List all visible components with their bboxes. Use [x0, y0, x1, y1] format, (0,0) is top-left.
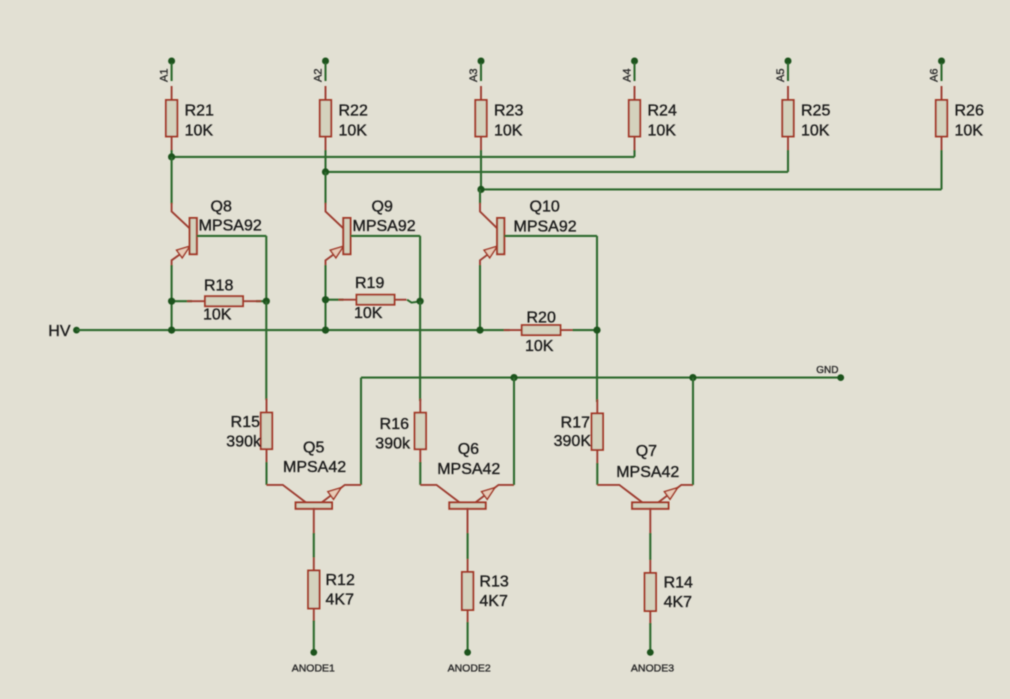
svg-text:R23: R23	[494, 103, 523, 120]
svg-text:4K7: 4K7	[479, 593, 508, 610]
svg-text:A3: A3	[468, 69, 480, 82]
svg-text:R19: R19	[355, 275, 384, 292]
svg-text:10K: 10K	[525, 338, 554, 355]
svg-text:10K: 10K	[203, 307, 232, 324]
svg-text:R15: R15	[231, 414, 260, 431]
svg-text:10K: 10K	[494, 123, 523, 140]
svg-text:A2: A2	[313, 69, 325, 82]
svg-text:Q7: Q7	[636, 443, 657, 460]
svg-text:R14: R14	[664, 575, 693, 592]
svg-text:R16: R16	[380, 416, 409, 433]
svg-text:Q10: Q10	[530, 199, 560, 216]
svg-text:Q6: Q6	[458, 441, 479, 458]
svg-text:ANODE3: ANODE3	[631, 663, 674, 675]
svg-text:A4: A4	[622, 69, 634, 82]
svg-text:Q9: Q9	[372, 199, 393, 216]
svg-text:R12: R12	[326, 572, 355, 589]
svg-text:MPSA92: MPSA92	[514, 219, 577, 236]
svg-text:10K: 10K	[185, 123, 214, 140]
svg-text:R18: R18	[204, 278, 233, 295]
svg-text:HV: HV	[48, 323, 71, 340]
svg-text:10K: 10K	[648, 123, 677, 140]
svg-text:R21: R21	[185, 103, 214, 120]
svg-text:ANODE1: ANODE1	[292, 663, 335, 675]
svg-text:MPSA92: MPSA92	[353, 218, 416, 235]
svg-text:10K: 10K	[339, 123, 368, 140]
svg-text:A5: A5	[775, 69, 787, 82]
svg-text:GND: GND	[816, 365, 838, 376]
svg-text:R20: R20	[527, 310, 556, 327]
svg-text:Q8: Q8	[211, 199, 232, 216]
svg-text:4K7: 4K7	[326, 592, 355, 609]
svg-text:R22: R22	[339, 103, 368, 120]
svg-text:MPSA42: MPSA42	[283, 459, 346, 476]
svg-text:R26: R26	[955, 103, 984, 120]
svg-text:R25: R25	[801, 103, 830, 120]
svg-text:R17: R17	[561, 415, 590, 432]
svg-text:390K: 390K	[554, 433, 592, 450]
svg-text:R13: R13	[479, 574, 508, 591]
svg-text:390k: 390k	[226, 434, 262, 451]
svg-text:10K: 10K	[354, 305, 383, 322]
svg-text:MPSA42: MPSA42	[616, 464, 679, 481]
svg-text:Q5: Q5	[303, 440, 324, 457]
svg-text:10K: 10K	[801, 123, 830, 140]
svg-text:A6: A6	[929, 69, 941, 82]
svg-text:390k: 390k	[375, 436, 411, 453]
svg-text:MPSA42: MPSA42	[437, 461, 500, 478]
svg-text:4K7: 4K7	[664, 594, 693, 611]
svg-text:R24: R24	[648, 103, 677, 120]
svg-text:A1: A1	[159, 69, 171, 82]
svg-text:ANODE2: ANODE2	[448, 663, 491, 675]
svg-text:10K: 10K	[955, 123, 984, 140]
svg-text:MPSA92: MPSA92	[199, 218, 262, 235]
